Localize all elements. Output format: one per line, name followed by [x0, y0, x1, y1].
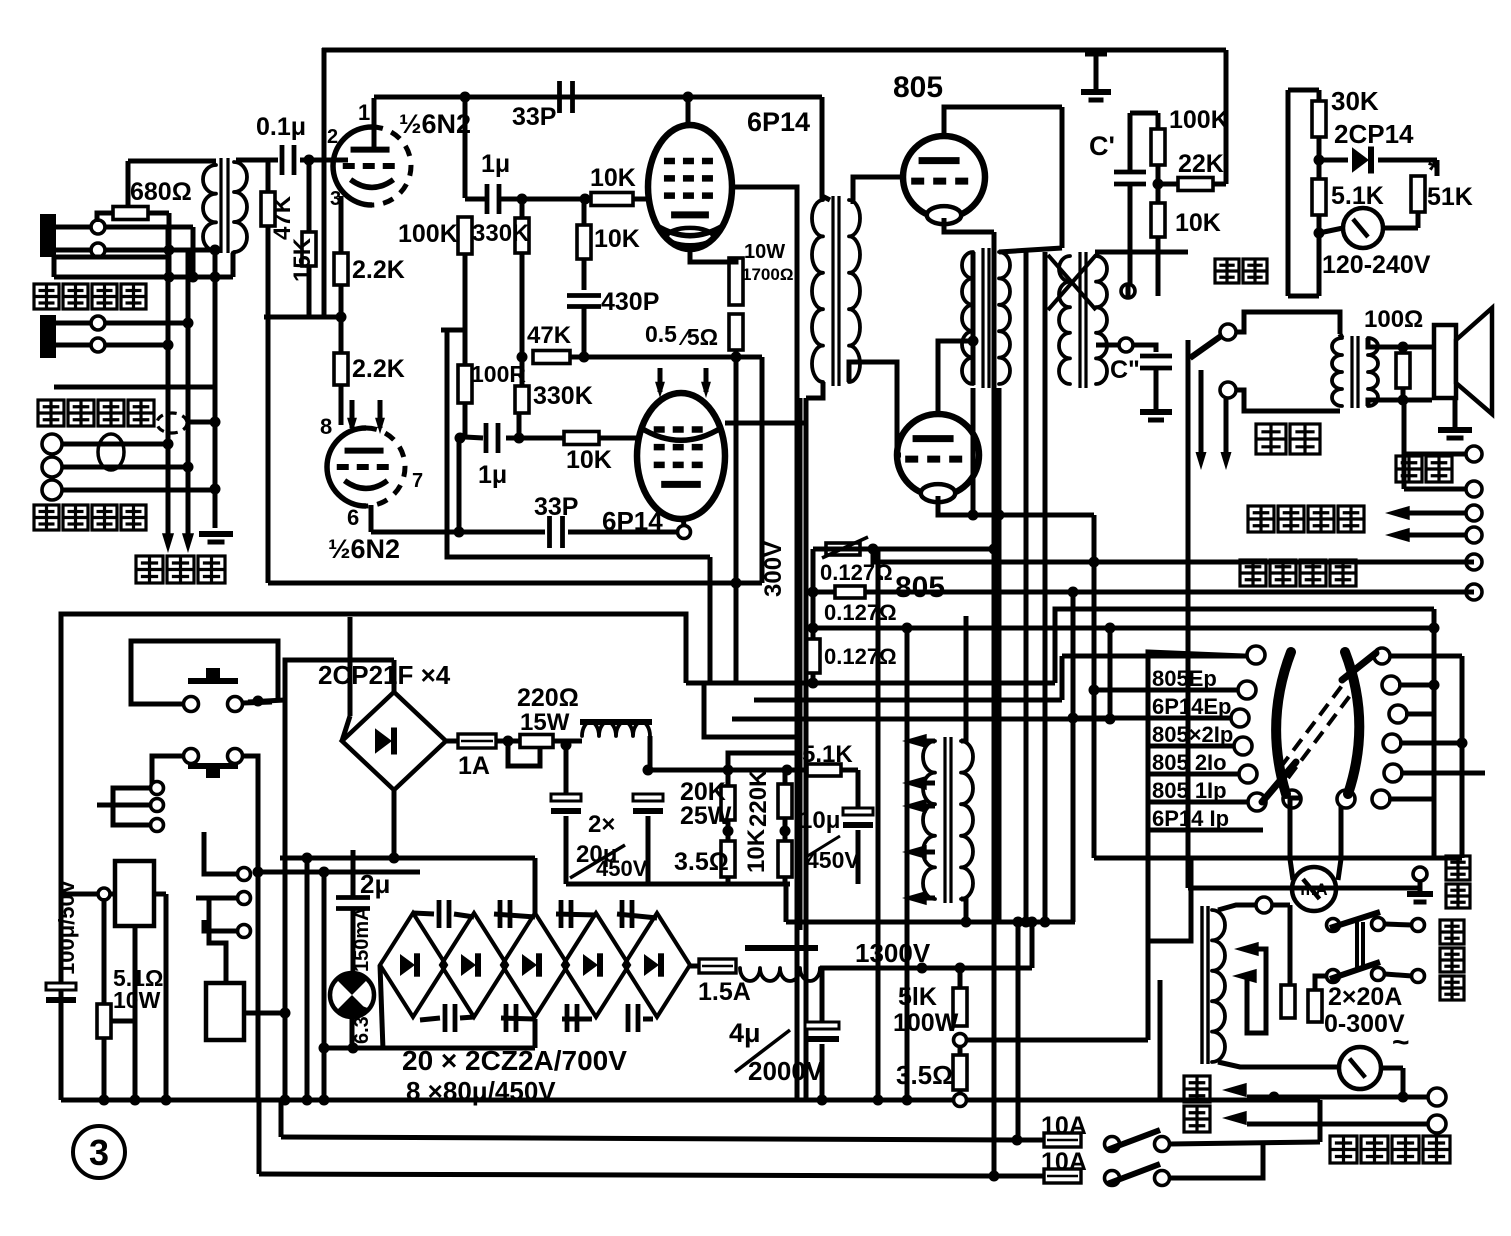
relay box 2	[206, 983, 244, 1040]
svg-text:*: *	[1428, 154, 1440, 187]
wire 6P14 plate to T2 primary	[822, 196, 830, 200]
label 乙机 stacked	[1184, 1076, 1210, 1102]
wire from y858 down	[1146, 858, 1191, 941]
input transformer T1	[219, 158, 222, 253]
wire rail 2 y97	[374, 95, 822, 100]
svg-text:0.1μ: 0.1μ	[256, 113, 306, 141]
bus x813	[811, 549, 816, 683]
resistor 47K	[266, 160, 271, 192]
svg-text:10K: 10K	[1175, 209, 1221, 237]
wire rail corner down x1227	[1224, 50, 1229, 184]
svg-text:430P: 430P	[601, 288, 659, 316]
resistor 10K grid stopper upper	[591, 193, 633, 206]
svg-text:22K: 22K	[1178, 150, 1224, 178]
svg-text:30K: 30K	[1331, 86, 1379, 116]
svg-text:10W: 10W	[113, 987, 161, 1013]
grid lead V1a	[336, 158, 348, 163]
resistor 10K lower-mid	[577, 225, 591, 259]
svg-text:4μ: 4μ	[729, 1018, 761, 1048]
wire y1048	[324, 1046, 535, 1051]
speaker line transformer T5	[1350, 336, 1353, 408]
svg-text:100K: 100K	[398, 220, 458, 248]
output transformer T3 (805)	[981, 248, 984, 388]
resistor 3.5ohm bleeder	[953, 1055, 967, 1090]
node wire y317	[264, 315, 341, 320]
wire bridge feeds	[348, 617, 353, 716]
wire T3 primary top	[1060, 107, 1065, 248]
resistor 15K	[302, 232, 316, 266]
cathode lead V1b	[369, 505, 374, 532]
bus x806	[804, 398, 809, 1100]
bus x307	[305, 858, 310, 1100]
ground 去乙机	[199, 531, 233, 537]
wire jack1 to corner	[105, 225, 193, 230]
wire 5.1K bias	[807, 764, 841, 776]
resistor 30K	[1312, 101, 1326, 137]
power transformer T7	[1200, 906, 1203, 1064]
svg-text:10K: 10K	[743, 828, 770, 873]
svg-text:1.5A: 1.5A	[698, 978, 751, 1006]
resistor 220K	[778, 784, 792, 818]
label 讯号输入 (signal input)	[34, 284, 59, 309]
svg-text:10K: 10K	[594, 225, 640, 253]
relay box	[115, 861, 154, 926]
wire 330K lower bottom	[517, 413, 522, 438]
wire x710 down	[708, 557, 713, 683]
wire y1124 to terminal	[1222, 1111, 1247, 1125]
voltmeter 0-300V	[1339, 1047, 1381, 1089]
svg-text:0.127Ω: 0.127Ω	[824, 644, 897, 669]
wire y858	[280, 856, 535, 861]
switch S3b	[1105, 1171, 1120, 1186]
rail junction dots	[99, 1095, 110, 1106]
contact circles left	[1247, 646, 1265, 664]
input jack J1/J2 plug	[40, 214, 56, 257]
transformer T4 乙机 OPT	[1078, 252, 1081, 388]
resistor 10K bias	[778, 841, 792, 877]
label 接增音机	[1330, 1136, 1357, 1163]
svg-text:1: 1	[358, 100, 370, 125]
wire selector loop	[1236, 312, 1340, 334]
wire to 甲机输出 lower	[813, 590, 835, 595]
svg-text:100K: 100K	[1169, 106, 1229, 134]
resistor 330K upper	[515, 218, 529, 253]
svg-text:47K: 47K	[527, 322, 572, 349]
wire y357 right end	[736, 355, 762, 360]
push switch S1	[188, 678, 238, 684]
wire T1 bottom return	[54, 255, 169, 260]
T6 right riser	[961, 616, 966, 741]
wire y1100 extension	[1160, 1098, 1320, 1103]
svg-text:7: 7	[412, 470, 423, 492]
wire top contact	[1062, 654, 1248, 659]
resistor 5.1K right	[1312, 179, 1326, 215]
svg-text:10μ: 10μ	[799, 807, 840, 834]
mid horizontals	[686, 681, 1055, 686]
grid wire 6P14 lower	[564, 432, 599, 445]
svg-text:805: 805	[895, 571, 945, 604]
resistor 51K	[1411, 176, 1425, 212]
svg-text:805×2Ip: 805×2Ip	[1152, 722, 1233, 747]
cathode 805 upper	[944, 218, 994, 232]
switch bank 感电源	[1327, 919, 1340, 932]
wire 6P14 plate rail to transformer	[820, 97, 825, 200]
meter loop vertical	[1286, 90, 1291, 296]
svg-text:0.127Ω: 0.127Ω	[824, 600, 897, 625]
svg-text:3.5Ω: 3.5Ω	[674, 848, 729, 876]
svg-text:0.5: 0.5	[645, 321, 677, 347]
svg-text:½6N2: ½6N2	[399, 109, 471, 139]
svg-text:C': C'	[1089, 131, 1115, 161]
capacitor 430P	[567, 293, 601, 298]
wire y872	[258, 870, 420, 875]
resistor 51K 100W	[953, 988, 967, 1026]
wire y628	[813, 626, 1434, 631]
panel wires + labels	[1148, 688, 1238, 693]
ground on top rail	[1094, 50, 1099, 90]
svg-text:10K: 10K	[566, 446, 612, 474]
vert x324	[322, 872, 327, 1100]
svg-text:2×: 2×	[588, 811, 615, 838]
svg-text:2: 2	[327, 126, 338, 148]
resistor 3.5 ohm	[721, 841, 735, 877]
wire sense to right	[967, 1038, 1148, 1043]
wire 30K branch	[1288, 88, 1319, 93]
vert x762	[760, 357, 765, 583]
resistor 0.5/5 ohm	[729, 314, 743, 350]
monitor terminals	[42, 434, 62, 454]
dashed pointer	[1288, 693, 1352, 778]
svg-text:33P: 33P	[512, 103, 556, 131]
svg-text:805Ep: 805Ep	[1152, 666, 1217, 691]
switch S3a	[1105, 1137, 1120, 1152]
svg-text:8 ×80μ/450V: 8 ×80μ/450V	[406, 1076, 556, 1106]
resistor 100R	[458, 365, 472, 403]
svg-text:2.2K: 2.2K	[352, 355, 405, 383]
chain mid vertical	[533, 858, 538, 913]
wire grid node down to 15K	[307, 160, 312, 232]
svg-text:100R: 100R	[471, 361, 526, 387]
ground at speaker	[1453, 398, 1458, 428]
wire B+ y770	[648, 768, 858, 773]
choke L2	[745, 945, 818, 951]
ground under C-doubleprime	[1140, 409, 1172, 415]
heater pins 6P14 lower	[658, 368, 663, 392]
rectifier diamond D5	[624, 913, 690, 1017]
svg-text:1700Ω: 1700Ω	[742, 265, 793, 284]
chain top caps	[437, 900, 442, 928]
resistor 1700ohm 10W cathode	[729, 258, 743, 305]
wire y922	[786, 920, 1075, 925]
grid lead 805 upper	[853, 177, 903, 204]
svg-text:6: 6	[347, 505, 359, 530]
cathode lead V1a to 2.2K	[339, 196, 344, 253]
svg-text:5.1K: 5.1K	[802, 741, 853, 768]
plate lead 805 upper	[944, 107, 1062, 136]
svg-text:330K: 330K	[533, 382, 593, 410]
selector down arrows to unit B	[1199, 370, 1204, 460]
wire top rail	[322, 48, 1226, 53]
feed for 10A fuse1	[1016, 922, 1021, 1140]
triode V1a 1/2 6N2 upper	[333, 127, 372, 205]
wire secondary top to 0.1u	[236, 158, 278, 163]
speaker LS	[1434, 325, 1456, 398]
svg-text:47K: 47K	[269, 195, 296, 240]
svg-text:1A: 1A	[458, 752, 490, 780]
rectifier diamond D2	[441, 913, 507, 1017]
svg-text:10K: 10K	[590, 164, 636, 192]
wire 1300V	[820, 966, 1032, 971]
svg-text:2CP14: 2CP14	[1334, 119, 1414, 149]
relay right drop	[164, 894, 169, 1100]
aux contact circles x244	[204, 832, 237, 874]
svg-text:8: 8	[320, 414, 332, 439]
rectifier diamond D1	[380, 913, 446, 1017]
input transformer T1 primary top	[128, 159, 216, 164]
甲机输出 terminals	[1466, 554, 1482, 570]
tube V5 805 upper	[903, 136, 985, 218]
resistor 47K feedback	[533, 351, 570, 364]
aux terminals x157	[151, 782, 164, 795]
svg-text:½6N2: ½6N2	[328, 534, 400, 564]
T7 tap 1	[1234, 942, 1259, 956]
pentode V4 6P14 lower	[637, 393, 725, 519]
cathode jog x1094	[1092, 515, 1097, 562]
cap 20u #2	[633, 794, 663, 801]
svg-text:805: 805	[893, 71, 943, 104]
svg-text:2×20A: 2×20A	[1328, 983, 1402, 1011]
resistor 0.127ohm #2	[835, 586, 865, 598]
wire gnd y884	[566, 882, 790, 887]
screen bus from 6P14 upper	[732, 187, 797, 1100]
T6 bottom lead	[961, 899, 966, 922]
T7 bottom lead	[1218, 1062, 1339, 1067]
svg-text:2CP21F ×4: 2CP21F ×4	[318, 660, 451, 690]
wire y1140 long	[281, 1137, 1017, 1140]
svg-text:330K: 330K	[472, 220, 530, 247]
svg-text:300V: 300V	[760, 541, 787, 597]
right contact wires	[1389, 654, 1462, 659]
wire y532 coupling	[371, 530, 545, 535]
T3 left coil to 805 plates	[971, 252, 976, 341]
wire jack4	[105, 343, 168, 348]
svg-text:20 × 2CZ2A/700V: 20 × 2CZ2A/700V	[402, 1045, 627, 1076]
wire 805 OPT to selector	[1095, 250, 1188, 255]
wire v-bus x447	[447, 330, 710, 557]
wire meter down	[1317, 233, 1322, 296]
bottom rail	[61, 1098, 1160, 1103]
wire 805 filament y549	[813, 547, 994, 552]
tube V6 805 lower	[897, 414, 979, 496]
wire jack3	[105, 321, 188, 326]
wire to 甲机输出 upper	[873, 549, 1466, 562]
shorting link under 220	[508, 741, 540, 766]
plate wire 6P14 lower	[725, 421, 806, 426]
dashed circle annotation	[157, 413, 187, 433]
svg-text:6.3V: 6.3V	[351, 1002, 373, 1044]
wire y1174 long	[259, 1174, 994, 1176]
label 去乙机	[136, 556, 163, 583]
wire v-bus x459 down	[457, 438, 462, 532]
rectifier diamond D3	[502, 913, 568, 1017]
resistor 0.127ohm #3	[806, 639, 820, 673]
T6 taps with arrows	[920, 739, 935, 744]
rotary arcs	[1276, 652, 1291, 794]
resistor 2.2K lower	[334, 353, 348, 385]
svg-text:6P14Ep: 6P14Ep	[1152, 694, 1232, 719]
T2 secondary bottom to 805 lower grid	[849, 362, 901, 455]
push switch S2	[184, 749, 199, 764]
svg-text:680Ω: 680Ω	[130, 178, 192, 206]
rectifier diamond D4	[563, 913, 629, 1017]
chain top wires	[413, 913, 434, 914]
chain bottom caps	[443, 1004, 448, 1032]
cathode 6P14 upper to resistors	[690, 249, 736, 262]
wire left rail drop	[322, 48, 327, 317]
relay bottom drop	[133, 926, 138, 1100]
svg-text:5lK: 5lK	[898, 983, 937, 1011]
plate lead V1a	[372, 98, 377, 152]
svg-text:6P14: 6P14	[747, 107, 810, 137]
phase cross X	[1048, 255, 1096, 310]
pentode V3 6P14 upper	[648, 125, 732, 249]
interstage transformer T6	[943, 737, 946, 903]
resistor 10K right	[1151, 203, 1165, 237]
T3 secondary leads down	[971, 345, 976, 385]
chain bottom wires	[420, 1018, 440, 1020]
svg-text:15W: 15W	[520, 709, 570, 736]
resistor 5.1ohm 10W	[102, 898, 107, 1004]
resistor 680 ohm	[113, 207, 148, 220]
乙机输出 terminals	[1466, 505, 1482, 521]
vert x1073 down	[1071, 592, 1076, 922]
svg-text:3: 3	[89, 1132, 109, 1173]
wire C' top link	[1130, 111, 1158, 116]
selector feed down	[1186, 340, 1191, 888]
wire 680 left to jack1	[97, 213, 113, 222]
capacitor 100u50V	[46, 983, 76, 990]
Y mark	[1342, 653, 1376, 680]
svg-text:⁄5Ω: ⁄5Ω	[678, 324, 718, 350]
driver transformer T2	[831, 196, 834, 386]
wires fuse to switch	[1315, 976, 1326, 990]
svg-text:1μ: 1μ	[478, 461, 507, 489]
wire x1160 up	[1158, 980, 1163, 1100]
label circled 3	[73, 1126, 125, 1178]
filter caps 2x20u450V	[564, 745, 569, 798]
panel box	[1148, 652, 1244, 1040]
T7 top lead to terminal	[1218, 905, 1256, 910]
input jack J3/J4 plug	[40, 315, 56, 358]
svg-text:C": C"	[1110, 356, 1140, 384]
twisted pair annotation	[98, 434, 124, 470]
resistor 100K	[458, 217, 472, 254]
meter 120-240V	[1343, 208, 1383, 248]
bottom panel wires	[1094, 856, 1462, 861]
svg-text:220K: 220K	[745, 769, 772, 827]
bridge bottom to heater rail	[392, 790, 397, 858]
svg-text:150mA: 150mA	[351, 906, 373, 972]
chain left corner down	[380, 965, 383, 1050]
wire 47K to 0.5 ohm node	[570, 355, 760, 360]
vertical buses to 去乙机	[166, 228, 171, 540]
heater pins lower 6N2	[350, 400, 355, 428]
long bus verticals center	[1024, 252, 1029, 922]
svg-text:220Ω: 220Ω	[517, 684, 579, 712]
svg-text:5.1K: 5.1K	[1331, 182, 1384, 210]
resistor 22K	[1178, 178, 1213, 191]
svg-text:450V: 450V	[596, 856, 648, 881]
fuse 1A	[446, 739, 458, 744]
contact circles right	[1374, 648, 1390, 664]
svg-text:33P: 33P	[534, 493, 578, 521]
svg-text:~: ~	[1392, 1026, 1410, 1059]
wire v-bus x465 down	[463, 97, 468, 198]
plate lead 805 lower	[938, 341, 974, 414]
filter choke L1	[580, 719, 652, 725]
capacitor 4u 2000V	[820, 968, 825, 1026]
resistor 20K 25W	[721, 786, 735, 820]
svg-text:1μ: 1μ	[481, 150, 510, 178]
wire y385 input area	[54, 385, 216, 390]
label 线路监听	[38, 400, 64, 426]
wire 680 right down	[148, 211, 169, 216]
svg-text:120-240V: 120-240V	[1322, 251, 1431, 279]
left bus x268 down	[266, 226, 271, 583]
wire jack2 to transformer	[105, 248, 216, 253]
svg-text:2.2K: 2.2K	[352, 256, 405, 284]
label 乙机	[1256, 424, 1286, 454]
cathode 805 lower	[938, 496, 1094, 515]
power box border	[61, 614, 686, 1100]
resistor 100K right	[1151, 129, 1165, 165]
svg-text:10W: 10W	[744, 241, 785, 263]
T2 primary bottom	[806, 382, 823, 398]
svg-text:100μ/50V: 100μ/50V	[54, 879, 79, 975]
resistor 0.127ohm #1 with arrow	[826, 543, 860, 555]
long verticals mid-bottom	[876, 549, 881, 1100]
805 filament bus	[992, 232, 997, 1176]
resistor 330K lower	[515, 386, 529, 413]
label 讯号输入 2	[34, 505, 59, 530]
resistor 220ohm 15W	[520, 735, 553, 748]
fuse 1.5A	[690, 964, 699, 969]
bias jog to 300V bus	[728, 753, 797, 770]
long wire y583	[268, 581, 762, 586]
svg-text:25W: 25W	[680, 802, 732, 830]
wire 0.1u to 6N2 grid	[300, 158, 336, 163]
wire y1097 to terminal	[1222, 1083, 1247, 1097]
svg-text:100Ω: 100Ω	[1364, 306, 1423, 333]
svg-text:6P14 Ip: 6P14 Ip	[1152, 806, 1229, 831]
svg-text:51K: 51K	[1427, 183, 1473, 211]
ground terminal 地线	[1413, 867, 1427, 881]
vert x736 down	[734, 357, 739, 683]
meter mA	[1292, 867, 1336, 911]
svg-text:2000V: 2000V	[748, 1056, 824, 1086]
plate lead 6P14 upper	[686, 97, 691, 127]
监听 terminals	[1466, 446, 1482, 462]
svg-text:15K: 15K	[289, 237, 316, 282]
fuses vertical	[1281, 985, 1295, 1018]
resistor 2.2K upper	[334, 253, 348, 285]
triode V1b 1/2 6N2 lower	[339, 385, 344, 425]
svg-text:100W: 100W	[893, 1009, 959, 1037]
wires to mA meter	[1290, 798, 1301, 859]
X mark	[1262, 762, 1296, 802]
